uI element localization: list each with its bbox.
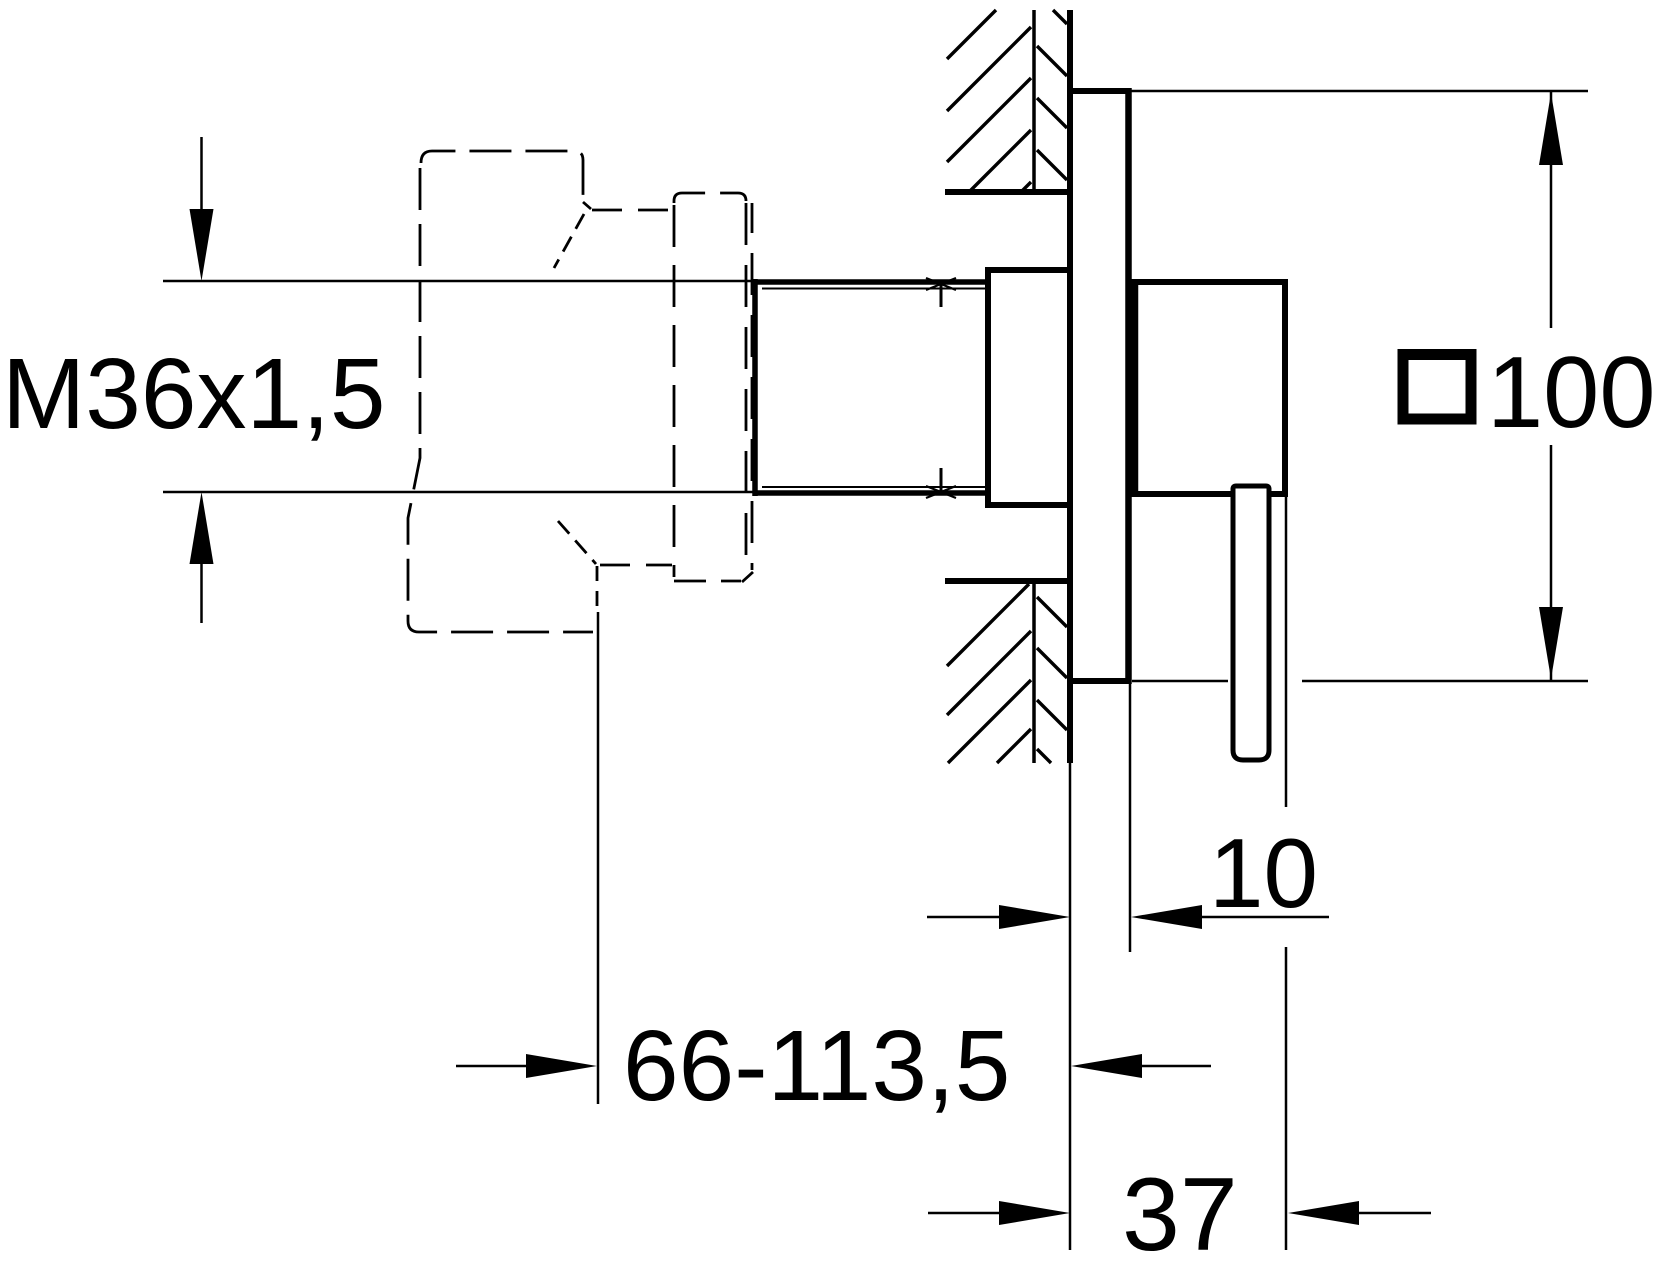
dashed chamfer top-right (583, 202, 591, 209)
svg-text:10: 10 (1209, 818, 1318, 928)
dim line 100 top (1131, 90, 1588, 93)
dashed inner box: top edge with corners (674, 193, 746, 203)
wall finish layer inner line top (1032, 10, 1036, 192)
M36 dimension line top (163, 280, 753, 283)
dashed diagonal top (554, 214, 584, 268)
dim 100 down arrow (1539, 607, 1563, 679)
dim 37 right arrow (1288, 1201, 1359, 1225)
dashed vertical above extension (596, 566, 599, 608)
lever handle bar (1233, 486, 1269, 760)
M36 bottom arrow (up) (200, 563, 203, 623)
escutcheon plate bottom edge (1070, 678, 1129, 684)
dashed inner box: bottom-right chamfer (742, 572, 753, 582)
svg-text:66-113,5: 66-113,5 (623, 1010, 1010, 1122)
dim 37 left arrow (928, 1212, 1000, 1215)
svg-text:M36x1,5: M36x1,5 (2, 338, 386, 450)
dashed connector top horizontal (592, 209, 672, 212)
extension line from dashed box (597, 612, 600, 1104)
dashed inner box: bottom edge (674, 580, 741, 583)
M36 top arrow (down) (200, 137, 203, 210)
dashed inner box: left edge (673, 205, 676, 577)
extension line wall surface (1069, 763, 1072, 1250)
dim 100 vertical line (1550, 91, 1553, 681)
threaded stub outline (755, 279, 988, 496)
extension line plate front (1129, 684, 1132, 952)
svg-text:37: 37 (1122, 1157, 1238, 1268)
wall finish-layer hatch bottom (opposite 45deg) (1037, 597, 1067, 763)
dim line 100 bottom segments (1132, 680, 1588, 683)
thread chamfer tick bottom (940, 468, 943, 491)
thread root line top (762, 288, 985, 290)
dashed connector bottom horizontal (600, 564, 672, 567)
escutcheon plate top edge (1072, 88, 1129, 94)
dim 66-113,5 left arrow (456, 1065, 527, 1068)
svg-text:100: 100 (1487, 337, 1656, 449)
dashed inner box: right double edge (745, 203, 748, 574)
M36 dimension line bottom (163, 491, 753, 494)
thread chamfer cross top (926, 278, 956, 290)
thread root line bottom (762, 486, 985, 488)
extension line body front (1285, 497, 1288, 1250)
wall finish layer inner line bottom (1032, 584, 1036, 763)
dashed diagonal bottom (558, 521, 596, 564)
concealed housing box (behind wall) (988, 267, 1067, 508)
wall hatch bottom section (masonry, 45deg) (947, 584, 1031, 763)
dim 10 left arrow (927, 916, 1000, 919)
wall hatch top section (masonry, 45deg) (947, 10, 1031, 192)
dim 10 right arrow (1131, 905, 1202, 929)
escutcheon plate right edge (1125, 88, 1132, 684)
niche bottom edge (945, 578, 1067, 584)
square symbol (1403, 355, 1471, 420)
niche top edge (945, 189, 1067, 195)
thread chamfer tick top (940, 284, 943, 307)
wall finish-layer hatch top (opposite 45deg) (1037, 10, 1067, 180)
thread chamfer cross bottom (926, 486, 956, 498)
dim 100 up arrow (1539, 93, 1563, 165)
dashed rough-in outer box: top edge and right upper edge (421, 151, 583, 200)
dashed rough-in outer box: left edge, slant, bottom edge (408, 168, 593, 632)
wall surface line (1067, 10, 1073, 763)
dim 66-113,5 right arrow (1071, 1054, 1142, 1078)
valve body front rectangle (1131, 279, 1288, 497)
